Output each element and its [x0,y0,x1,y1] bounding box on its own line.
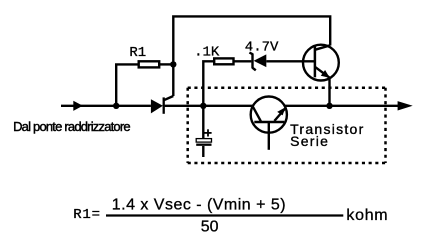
svg-text:Dal ponte raddrizzatore: Dal ponte raddrizzatore [13,119,130,134]
svg-text:1.4 x Vsec - (Vmin + 5): 1.4 x Vsec - (Vmin + 5) [112,196,286,213]
svg-text:.1K: .1K [194,45,220,61]
svg-text:R1: R1 [129,45,146,61]
svg-text:R1=: R1= [73,207,101,223]
svg-text:4.7V: 4.7V [245,40,279,56]
svg-text:Serie: Serie [290,133,329,149]
svg-text:50: 50 [201,219,219,236]
svg-text:kohm: kohm [346,207,388,224]
